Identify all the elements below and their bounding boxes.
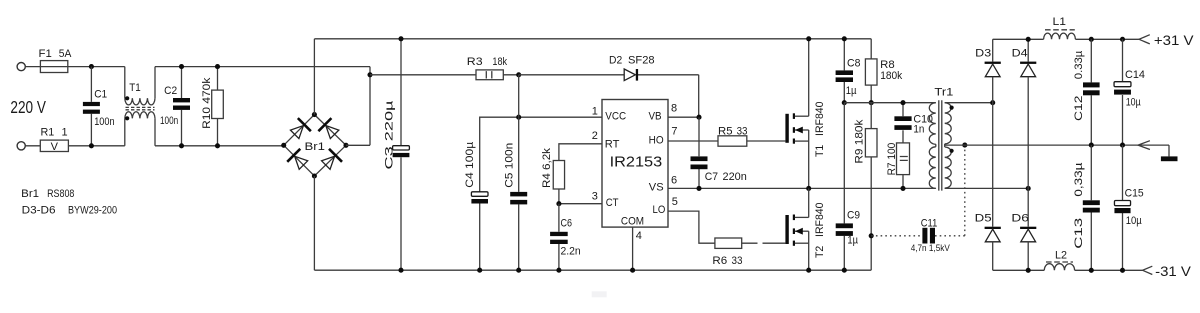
svg-text:D5: D5 <box>975 212 992 224</box>
svg-text:L2: L2 <box>1055 250 1067 262</box>
wire LO pin 5 to R6 <box>668 211 715 243</box>
wire R5 to T1 gate <box>747 140 786 142</box>
svg-text:L1: L1 <box>1053 16 1067 28</box>
svg-text:D4: D4 <box>1012 47 1028 59</box>
capacitor C7 220n (bootstrap) <box>691 117 747 188</box>
svg-text:Br1: Br1 <box>305 141 326 153</box>
svg-text:33: 33 <box>732 255 743 267</box>
node C2 top <box>179 64 184 69</box>
wire R3 junction to VCC node <box>518 75 520 117</box>
node C3 top <box>398 36 403 41</box>
wire bridge - riser to ground rail <box>313 176 315 270</box>
faint watermark remnant <box>592 291 607 297</box>
wire main top rail (+310V) <box>314 38 871 40</box>
wire filter top rail <box>155 66 370 68</box>
svg-text:100n: 100n <box>94 116 114 128</box>
node R7 VS <box>900 186 905 191</box>
wire bridge + riser to top rail <box>313 39 315 115</box>
svg-text:100n: 100n <box>160 115 178 127</box>
svg-text:D3: D3 <box>975 47 991 59</box>
node C14 +rail <box>1120 37 1125 42</box>
fuse F1 <box>39 48 73 73</box>
svg-text:10µ: 10µ <box>1126 97 1142 109</box>
diode D3 <box>975 47 1001 76</box>
svg-text:VS: VS <box>649 182 664 194</box>
wire AC bottom to R1 and C1 <box>25 145 125 147</box>
svg-text:R1: R1 <box>41 127 55 139</box>
resistor R9 180k <box>854 103 878 271</box>
svg-text:-31 V: -31 V <box>1155 263 1192 279</box>
terminal bottom-left (AC input) <box>17 142 25 150</box>
diode D2 SF28 <box>519 55 699 117</box>
svg-text:33: 33 <box>737 126 748 138</box>
svg-text:6: 6 <box>671 175 677 187</box>
node center tap dashed <box>962 143 967 148</box>
node C12 +rail <box>1089 37 1094 42</box>
svg-text:1: 1 <box>592 105 598 117</box>
node secondary top D3 <box>990 100 995 105</box>
node C15 -rail <box>1120 268 1125 273</box>
wire CT pin 3 <box>559 203 602 205</box>
resistor R1 1 (varistor V) <box>40 127 68 153</box>
wire secondary top lead <box>945 102 993 104</box>
node T1 source VS <box>806 186 811 191</box>
svg-text:7: 7 <box>671 126 677 138</box>
node C12 mid <box>1089 143 1094 148</box>
capacitor C6 2.2n <box>550 204 581 271</box>
diode D5 <box>975 212 1001 242</box>
svg-text:COM: COM <box>621 216 644 228</box>
wire HO pin 7 to R5 <box>668 140 718 142</box>
wire AC top to F1 and C1 <box>25 66 125 68</box>
node C6 gnd <box>556 268 561 273</box>
diode D6 <box>1011 212 1036 242</box>
svg-text:2: 2 <box>592 130 598 142</box>
svg-text:220 V: 220 V <box>10 97 46 117</box>
svg-text:VB: VB <box>649 111 662 123</box>
svg-text:180k: 180k <box>880 70 902 82</box>
svg-text:C11: C11 <box>921 218 938 230</box>
svg-text:2.2n: 2.2n <box>561 246 581 258</box>
node C5 gnd <box>516 268 521 273</box>
svg-text:R4 6,2k: R4 6,2k <box>541 147 553 188</box>
transistor T1 IRF840 (high side) <box>785 39 826 189</box>
svg-text:3: 3 <box>592 190 598 202</box>
resistor R4 6,2k <box>541 144 602 204</box>
wire D3/D5 vertical <box>992 39 994 270</box>
capacitor C5 100n <box>504 117 528 270</box>
node junction C1 top <box>89 64 94 69</box>
terminal -31 V <box>1143 263 1192 279</box>
node CT-R4-C6 <box>556 201 561 206</box>
svg-text:C6: C6 <box>561 217 573 229</box>
resistor R10 470k <box>201 67 223 146</box>
resistor R8 180k <box>865 39 902 103</box>
wire filter bottom rail <box>155 145 284 147</box>
svg-text:R7 100: R7 100 <box>886 143 898 176</box>
svg-text:4,7n 1,5kV: 4,7n 1,5kV <box>911 243 951 254</box>
inductor L2 <box>1044 250 1074 271</box>
svg-text:10µ: 10µ <box>1126 215 1143 227</box>
svg-text:T2 IRF840: T2 IRF840 <box>814 203 826 259</box>
capacitor C1 100n <box>83 67 115 146</box>
node VB-D2-C7 <box>696 115 701 120</box>
svg-text:LO: LO <box>653 204 666 216</box>
node C10 top <box>900 100 905 105</box>
capacitor C12 0.33u <box>1073 39 1100 145</box>
wire VS pin 6 line <box>668 187 936 189</box>
capacitor C3 220u (electrolytic) <box>384 39 410 270</box>
svg-text:Tr1: Tr1 <box>934 87 953 99</box>
svg-text:HO: HO <box>649 134 664 146</box>
svg-text:D2: D2 <box>609 55 622 67</box>
svg-text:R3: R3 <box>467 56 483 68</box>
wire +31V rail <box>993 38 1139 40</box>
node A C8-C9 <box>842 100 847 105</box>
wire COM pin 4 to ground <box>632 227 634 270</box>
wire bridge right vertex to filter rail <box>346 67 370 146</box>
node C9 gnd <box>842 268 847 273</box>
wire secondary bottom lead <box>945 187 1028 189</box>
node C2 bottom <box>179 143 184 148</box>
node C13 -rail <box>1089 268 1094 273</box>
inductor L1 <box>1044 16 1076 39</box>
node R9-C11 branch <box>869 233 874 238</box>
node COM gnd <box>630 268 635 273</box>
svg-text:18k: 18k <box>492 56 507 68</box>
svg-text:C9: C9 <box>847 209 860 221</box>
capacitor C11 4,7n 1,5kV (Y-cap, dashed optional) <box>871 145 965 254</box>
node D6 -rail <box>1026 268 1031 273</box>
bridge vertex node <box>312 112 317 117</box>
svg-text:RS808: RS808 <box>47 188 74 200</box>
svg-text:5A: 5A <box>59 48 72 60</box>
node A R8-R9 <box>869 100 874 105</box>
svg-text:C1: C1 <box>94 88 107 100</box>
svg-text:1: 1 <box>62 127 68 139</box>
capacitor C10 1n (snubber) <box>894 103 933 143</box>
bridge vertex node <box>343 143 348 148</box>
node R3 branch <box>367 72 372 77</box>
svg-text:C13: C13 <box>1073 218 1085 249</box>
node D4 +rail <box>1026 37 1031 42</box>
svg-text:R5: R5 <box>718 126 733 138</box>
svg-text:+31 V: +31 V <box>1154 32 1194 48</box>
wire main ground rail <box>314 269 871 271</box>
svg-text:T1 IRF840: T1 IRF840 <box>814 102 826 158</box>
svg-text:Br1: Br1 <box>21 188 39 200</box>
transistor T2 IRF840 (low side) <box>785 188 826 270</box>
svg-text:R10 470k: R10 470k <box>201 77 213 129</box>
bridge vertex node <box>281 143 286 148</box>
node C3 bottom <box>398 268 403 273</box>
svg-text:220n: 220n <box>723 171 747 183</box>
resistor R6 33 <box>712 238 742 267</box>
node T1 drain <box>806 36 811 41</box>
svg-text:T1: T1 <box>129 82 141 94</box>
wire VB pin 8 <box>668 116 699 118</box>
svg-text:SF28: SF28 <box>628 55 655 67</box>
svg-text:RT: RT <box>605 138 620 150</box>
node C4 gnd <box>477 268 482 273</box>
svg-text:R6: R6 <box>712 255 727 267</box>
svg-text:IR2153: IR2153 <box>610 154 663 171</box>
capacitor C14 10u (electrolytic) <box>1114 39 1145 145</box>
terminal top-left (AC input) <box>17 63 25 71</box>
capacitor C9 1u <box>836 103 860 271</box>
wire -31V rail <box>993 269 1143 271</box>
wire secondary center tap to output ground <box>945 144 1169 146</box>
capacitor C4 100u (electrolytic) <box>464 141 488 270</box>
transformer Tr1 <box>929 87 953 191</box>
bridge vertex node <box>312 173 317 178</box>
svg-text:1µ: 1µ <box>847 235 858 247</box>
svg-text:C12: C12 <box>1073 96 1085 122</box>
node C8 top rail <box>842 36 847 41</box>
op-amp U1 IR2153 driver IC <box>602 100 668 228</box>
node R3-D2 junction <box>516 72 521 77</box>
svg-text:F1: F1 <box>39 48 52 60</box>
svg-text:1µ: 1µ <box>846 85 857 97</box>
node secondary bottom D4 <box>1026 186 1031 191</box>
node VS-C7 <box>696 186 701 191</box>
node VCC-C5 <box>516 115 521 120</box>
resistor R7 100 (snubber) <box>886 143 910 189</box>
svg-text:4: 4 <box>636 230 642 242</box>
svg-text:VCC: VCC <box>605 111 626 123</box>
svg-text:C8: C8 <box>847 58 860 70</box>
capacitor C13 0,33u <box>1073 145 1100 270</box>
svg-text:C14: C14 <box>1125 69 1145 81</box>
wire R6 to T2 gate (with break) <box>742 242 786 244</box>
diode D4 <box>1012 47 1037 76</box>
transformer T1 (mains filter choke) <box>125 67 155 146</box>
svg-text:0,33µ: 0,33µ <box>1073 162 1085 197</box>
node T2 source gnd <box>806 268 811 273</box>
wire VCC line <box>480 117 602 192</box>
terminal 0V arrow <box>1138 141 1150 150</box>
node junction C1 bottom <box>89 143 94 148</box>
svg-text:0.33µ: 0.33µ <box>1073 50 1085 79</box>
svg-text:BYW29-200: BYW29-200 <box>68 204 117 216</box>
svg-text:C15: C15 <box>1125 188 1144 200</box>
svg-text:C3 220µ: C3 220µ <box>384 99 396 169</box>
svg-text:C2: C2 <box>164 85 177 97</box>
node R10 top <box>215 64 220 69</box>
svg-text:R9 180k: R9 180k <box>854 119 866 164</box>
node C14 mid <box>1120 143 1125 148</box>
capacitor C15 10u (electrolytic) <box>1114 145 1143 270</box>
capacitor C8 1u <box>836 39 861 103</box>
svg-text:5: 5 <box>672 196 678 208</box>
capacitor C2 100n <box>160 67 190 146</box>
svg-text:C4 100µ: C4 100µ <box>464 141 476 188</box>
bridge rectifier Br1 <box>284 115 346 176</box>
svg-text:D6: D6 <box>1011 212 1029 224</box>
terminal +31 V <box>1139 32 1194 48</box>
node R10 bottom <box>215 143 220 148</box>
wire node A line <box>844 102 936 104</box>
resistor R5 33 <box>718 126 748 147</box>
svg-text:CT: CT <box>606 197 619 209</box>
svg-text:1n: 1n <box>913 124 924 136</box>
ground symbol output <box>1161 145 1178 161</box>
wire D4/D6 vertical <box>1027 39 1029 270</box>
svg-text:V: V <box>51 141 59 153</box>
svg-text:D3-D6: D3-D6 <box>22 204 56 216</box>
svg-text:C7: C7 <box>705 171 718 183</box>
svg-text:8: 8 <box>671 103 677 115</box>
svg-text:C5 100n: C5 100n <box>504 143 516 188</box>
resistor R3 18k <box>370 56 519 80</box>
